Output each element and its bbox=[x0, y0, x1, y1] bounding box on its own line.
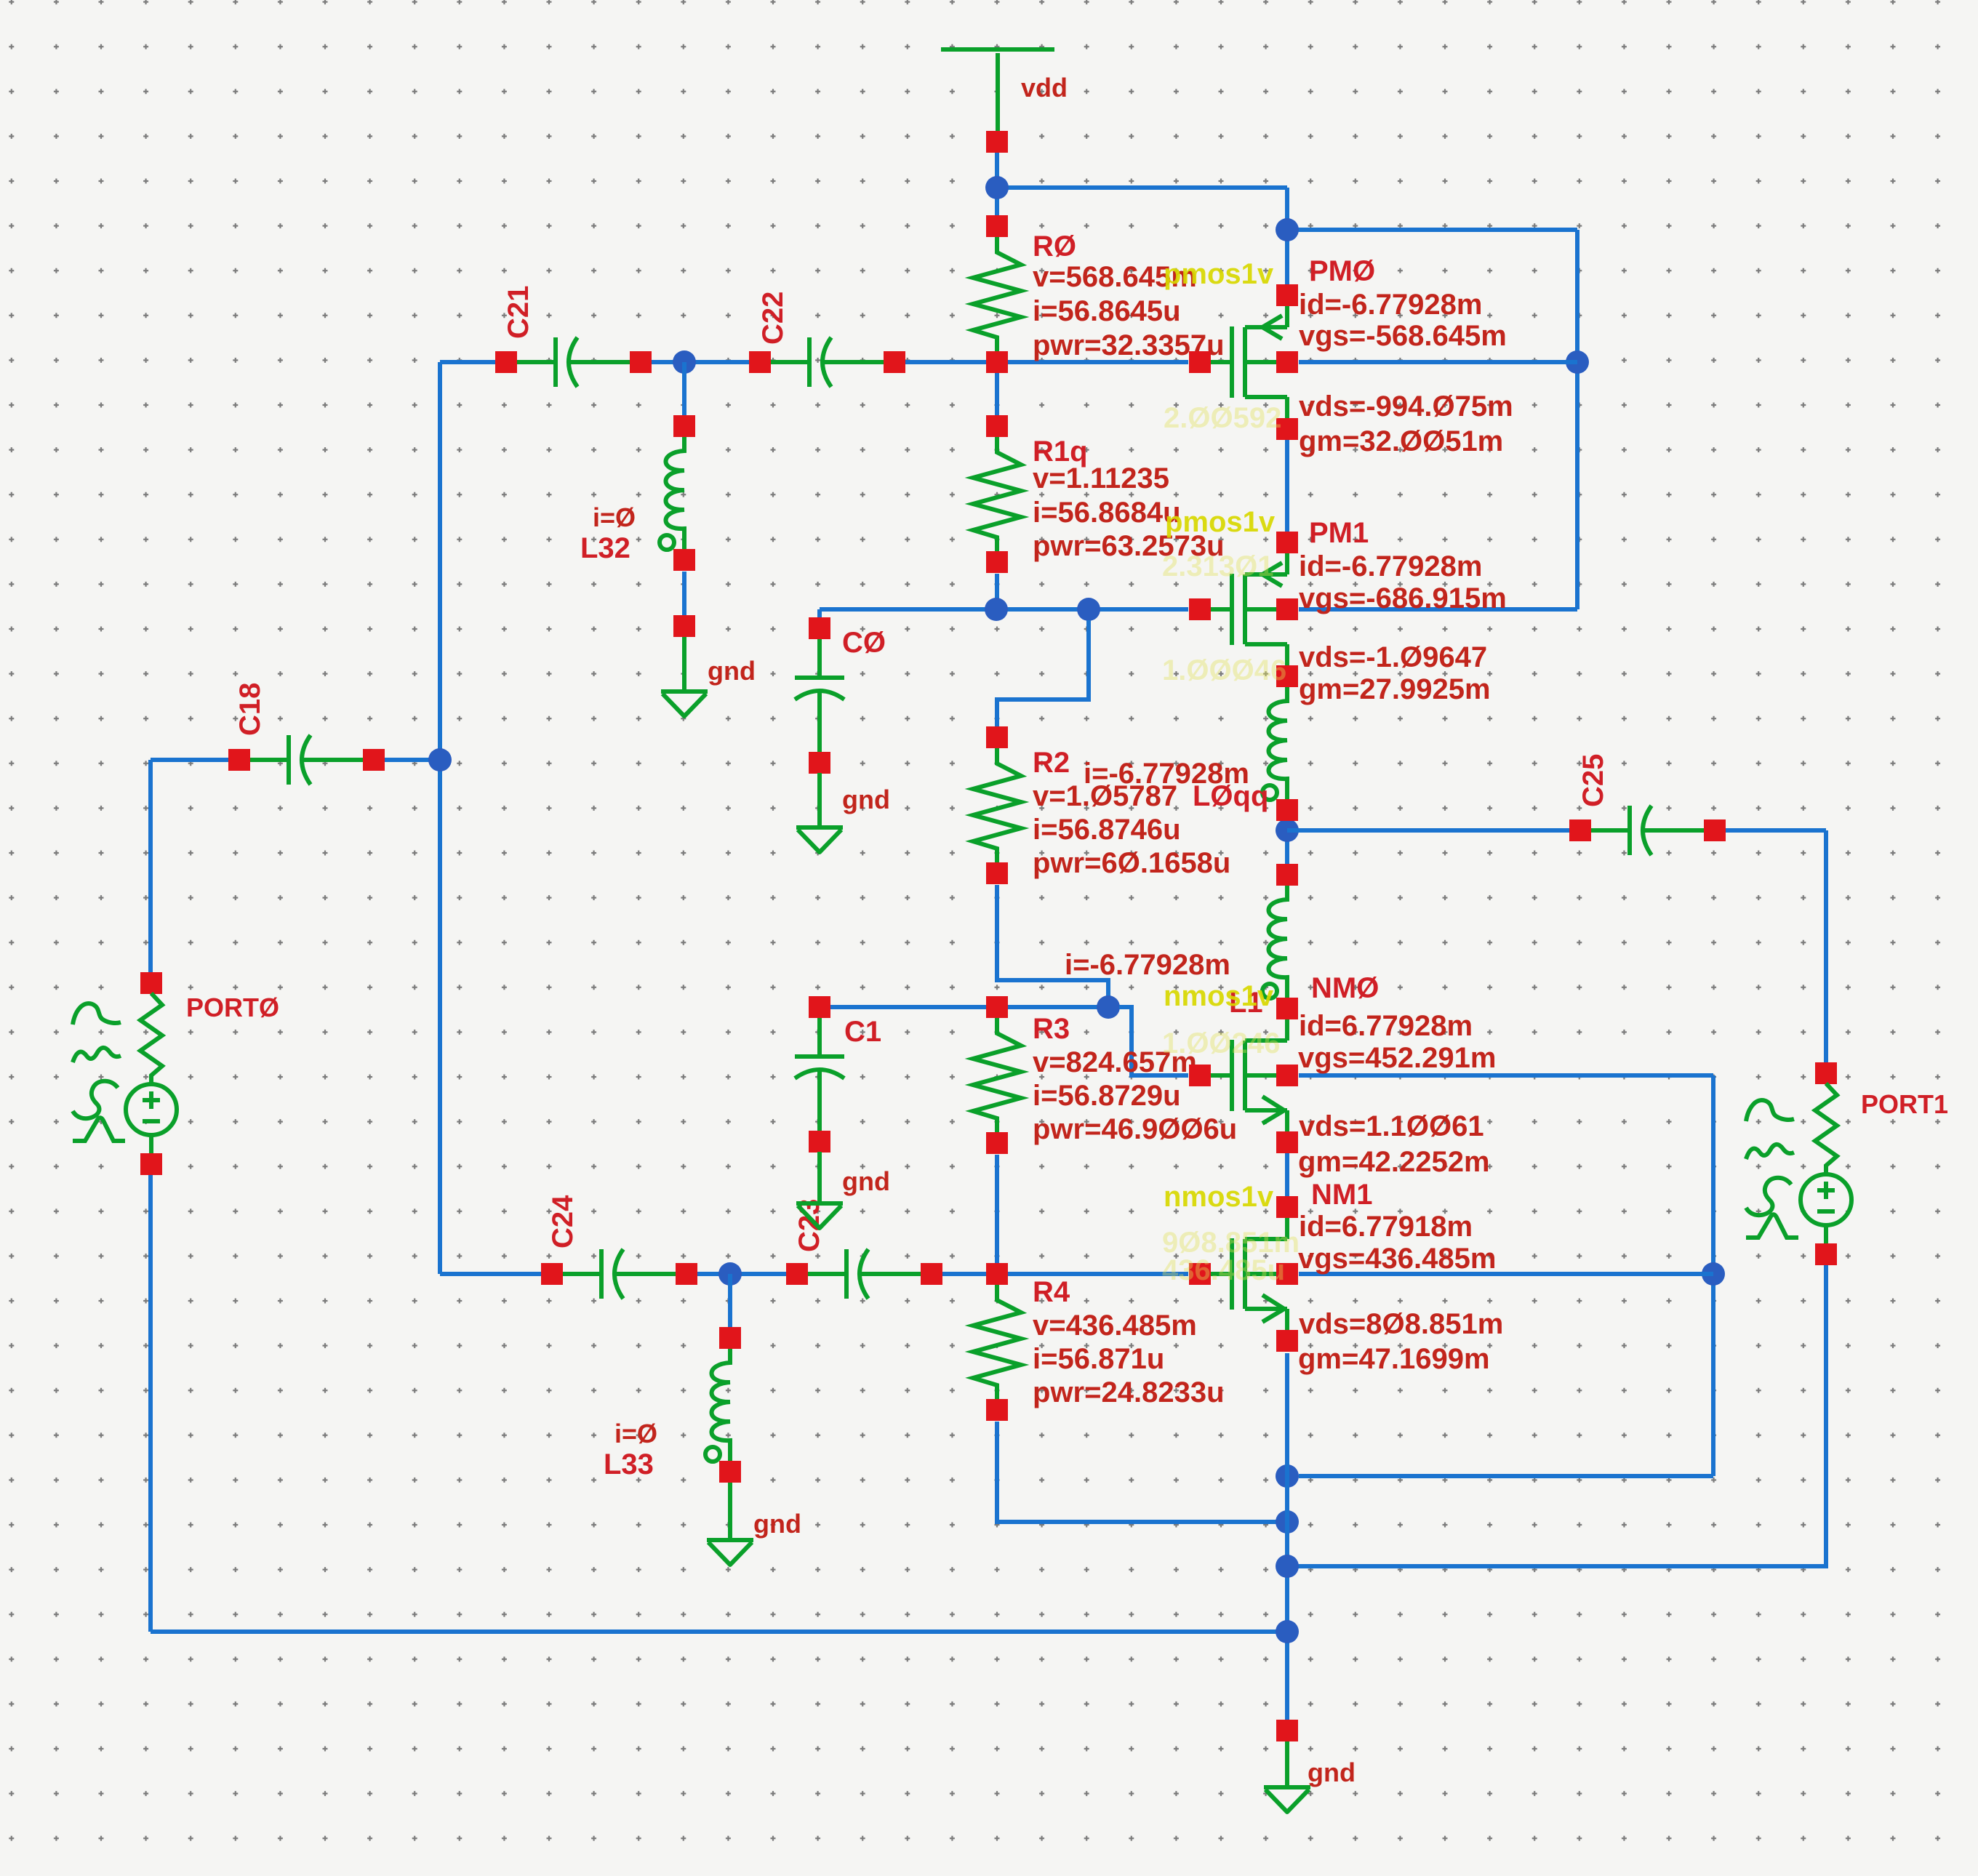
svg-text:R3: R3 bbox=[1033, 1013, 1070, 1045]
port PORT1 bbox=[1801, 1062, 1851, 1265]
resistor R4 bbox=[973, 1263, 1021, 1421]
node C21 C22 L32 junction bbox=[673, 350, 696, 374]
svg-text:gnd: gnd bbox=[708, 656, 756, 686]
svg-text:pwr=46.9ØØ6u: pwr=46.9ØØ6u bbox=[1033, 1113, 1237, 1145]
wire PM1 gate row bbox=[820, 607, 1188, 612]
svg-text:PM1: PM1 bbox=[1309, 517, 1369, 549]
svg-text:i=Ø: i=Ø bbox=[593, 502, 636, 532]
svg-text:i=56.8746u: i=56.8746u bbox=[1033, 814, 1181, 846]
capacitor C23 bbox=[786, 1249, 942, 1299]
wire C21 to C22 bbox=[652, 360, 749, 364]
wire L32 bottom to gnd pin bbox=[682, 572, 686, 615]
svg-text:vds=-994.Ø75m: vds=-994.Ø75m bbox=[1299, 390, 1513, 422]
svg-text:gm=32.ØØ51m: gm=32.ØØ51m bbox=[1299, 425, 1503, 457]
svg-text:LØqq: LØqq bbox=[1193, 780, 1268, 812]
svg-text:i=Ø: i=Ø bbox=[614, 1419, 657, 1448]
wire PM0 source to right feedback loop top bbox=[1287, 228, 1577, 232]
wire R3 top to junction bbox=[1008, 1005, 1097, 1009]
port PORT0 bbox=[126, 972, 177, 1175]
svg-text:i=56.871u: i=56.871u bbox=[1033, 1343, 1164, 1375]
wire vdd pin to R0 bbox=[995, 153, 999, 215]
svg-text:pmos1v: pmos1v bbox=[1165, 506, 1276, 538]
svg-text:vgs=452.291m: vgs=452.291m bbox=[1298, 1042, 1496, 1074]
svg-text:2.ØØ592: 2.ØØ592 bbox=[1164, 402, 1281, 434]
svg-text:vgs=-686.915m: vgs=-686.915m bbox=[1299, 582, 1507, 614]
node vdd junction bbox=[985, 176, 1009, 199]
wire PM0 drain to PM1 source bbox=[1285, 440, 1289, 532]
wire PM1 gate row jog down to R2 bbox=[997, 620, 1089, 726]
svg-text:gnd: gnd bbox=[842, 1166, 890, 1196]
wire right column NM0 gate net bbox=[1711, 1075, 1715, 1476]
svg-text:1.ØØ246: 1.ØØ246 bbox=[1162, 1027, 1280, 1059]
svg-text:i=56.8684u: i=56.8684u bbox=[1033, 497, 1181, 529]
svg-text:CØ: CØ bbox=[842, 627, 886, 659]
svg-text:gm=42.2252m: gm=42.2252m bbox=[1298, 1146, 1490, 1178]
wire C24 junction C23 bbox=[697, 1272, 786, 1276]
svg-text:i=56.8729u: i=56.8729u bbox=[1033, 1080, 1181, 1112]
svg-text:nmos1v: nmos1v bbox=[1164, 980, 1274, 1012]
svg-text:L33: L33 bbox=[604, 1448, 654, 1480]
wire NM0 bulk to right column bbox=[1299, 1073, 1713, 1078]
wire R3 bottom to R4 top bbox=[995, 1155, 999, 1263]
svg-text:C22: C22 bbox=[757, 292, 789, 345]
wire C18 corner down to PORT0 bbox=[148, 760, 153, 972]
node main column 2244 bbox=[1276, 1620, 1299, 1643]
ground symbol at L33 bbox=[707, 1483, 753, 1565]
wire R2 bottom jog to R3 row junction bbox=[997, 885, 1108, 996]
pin square vdd bbox=[986, 131, 1008, 153]
svg-text:C25: C25 bbox=[1577, 754, 1609, 807]
node feedback column at PM0 gate row bbox=[1566, 350, 1589, 374]
transistor NM0 nmos bbox=[1189, 998, 1298, 1153]
svg-text:gm=27.9925m: gm=27.9925m bbox=[1299, 673, 1491, 705]
node R3 row junction bbox=[1097, 995, 1120, 1019]
wire main column NM1 source to gnd bbox=[1285, 1353, 1289, 1720]
wire C23 to R4 bbox=[942, 1272, 986, 1276]
node right column at NM1 gate row bbox=[1702, 1262, 1725, 1286]
svg-text:gnd: gnd bbox=[1308, 1757, 1356, 1787]
wire jog junction to NM0 gate bbox=[1119, 1007, 1188, 1075]
node main column 2030 bbox=[1276, 1464, 1299, 1488]
wire right column bottom to main column bbox=[1299, 1474, 1713, 1478]
wire C0 stub bbox=[817, 609, 822, 617]
svg-text:pmos1v: pmos1v bbox=[1164, 258, 1274, 290]
svg-text:NM1: NM1 bbox=[1311, 1179, 1372, 1211]
wire R0 bottom to PM0 gate bbox=[1008, 360, 1188, 364]
capacitor C24 bbox=[541, 1249, 697, 1299]
svg-text:C24: C24 bbox=[547, 1195, 579, 1248]
svg-text:R2: R2 bbox=[1033, 747, 1070, 779]
svg-text:R4: R4 bbox=[1033, 1276, 1070, 1308]
wire C18 left lead bbox=[151, 758, 228, 762]
wire L32 top lead bbox=[682, 362, 686, 415]
svg-text:vgs=-568.645m: vgs=-568.645m bbox=[1299, 320, 1507, 352]
port PORT1 source squiggle bbox=[1746, 1100, 1798, 1238]
wire R4 to NM1 gate bbox=[1008, 1272, 1188, 1276]
ground symbol main bbox=[1264, 1720, 1310, 1812]
wire left column C21 to C24 bbox=[438, 362, 442, 1274]
svg-text:nmos1v: nmos1v bbox=[1164, 1181, 1274, 1213]
svg-text:vgs=436.485m: vgs=436.485m bbox=[1298, 1243, 1496, 1275]
inductor L1 bbox=[1262, 864, 1298, 1019]
svg-text:gnd: gnd bbox=[842, 785, 890, 814]
ground symbol at C0 bbox=[796, 773, 843, 852]
capacitor C21 bbox=[495, 337, 652, 387]
resistor R0 bbox=[973, 215, 1021, 373]
wire C18 to left column bbox=[385, 758, 440, 762]
node R2 junction on PM1 gate row bbox=[1077, 598, 1100, 621]
wire C25 left lead bbox=[1287, 828, 1569, 833]
svg-text:v=1.11235: v=1.11235 bbox=[1033, 462, 1169, 494]
transistor NM1 nmos bbox=[1189, 1196, 1298, 1352]
wire NM1 bulk to right column bbox=[1299, 1272, 1713, 1276]
wire C22 to R0 bottom bbox=[905, 360, 986, 364]
svg-text:i=-6.77928m: i=-6.77928m bbox=[1065, 949, 1230, 981]
resistor R3 bbox=[973, 996, 1021, 1154]
node C25 junction bbox=[1276, 819, 1299, 842]
wire L33 top lead bbox=[728, 1274, 732, 1327]
svg-text:C18: C18 bbox=[234, 683, 266, 736]
wire R1q bottom to PM1 gate row bbox=[995, 574, 999, 609]
ground symbol at L32 bbox=[661, 615, 708, 716]
svg-text:2.313Ø1: 2.313Ø1 bbox=[1162, 550, 1273, 582]
wire R4 bottom jog to main column bbox=[997, 1422, 1276, 1522]
svg-text:PORT1: PORT1 bbox=[1861, 1089, 1948, 1119]
wire right feedback column bbox=[1575, 230, 1579, 609]
svg-text:id=6.77918m: id=6.77918m bbox=[1299, 1211, 1473, 1243]
capacitor C18 bbox=[228, 735, 385, 785]
svg-text:vdd: vdd bbox=[1021, 73, 1068, 103]
wire PM0 bulk to feedback column bbox=[1299, 360, 1577, 364]
svg-text:pwr=24.8233u: pwr=24.8233u bbox=[1033, 1376, 1225, 1408]
wire C25 to PORT1 bbox=[1726, 830, 1826, 1062]
svg-text:NMØ: NMØ bbox=[1311, 972, 1379, 1004]
svg-text:PORTØ: PORTØ bbox=[186, 993, 279, 1022]
transistor PM0 pmos bbox=[1189, 284, 1298, 440]
node main column 2093 bbox=[1276, 1510, 1299, 1534]
port PORT0 source squiggle bbox=[73, 1003, 125, 1141]
svg-text:gnd: gnd bbox=[753, 1509, 801, 1539]
node PM0 source branch bbox=[1276, 218, 1299, 241]
resistor R1q bbox=[973, 415, 1021, 573]
capacitor C1 bbox=[795, 996, 844, 1153]
svg-text:vds=8Ø8.851m: vds=8Ø8.851m bbox=[1299, 1308, 1503, 1340]
svg-text:L32: L32 bbox=[580, 532, 630, 564]
wire NM0 source to NM1 drain bbox=[1285, 1153, 1289, 1196]
wire C1 to R3 top bbox=[830, 1005, 986, 1009]
svg-text:PMØ: PMØ bbox=[1309, 255, 1375, 287]
wire R0 to R1q bbox=[995, 373, 999, 415]
wire C21 left lead bbox=[440, 360, 495, 364]
capacitor C0 bbox=[795, 617, 844, 774]
wire vdd junction to PM0 source column bbox=[997, 188, 1287, 284]
capacitor C22 bbox=[749, 337, 905, 387]
svg-text:vds=-1.Ø9647: vds=-1.Ø9647 bbox=[1299, 641, 1487, 673]
svg-text:v=436.485m: v=436.485m bbox=[1033, 1310, 1197, 1342]
power rail vdd bbox=[941, 49, 1054, 131]
svg-text:gm=47.1699m: gm=47.1699m bbox=[1298, 1343, 1490, 1375]
svg-text:C21: C21 bbox=[502, 286, 534, 339]
inductor L0qq bbox=[1262, 665, 1298, 821]
transistor PM1 pmos bbox=[1189, 532, 1298, 687]
wire PM1 bulk to feedback column bbox=[1299, 607, 1577, 612]
wire NM1 gate row left from corner bbox=[440, 1272, 541, 1276]
node R1q junction on PM1 gate row bbox=[985, 598, 1008, 621]
svg-text:1.ØØØ46: 1.ØØØ46 bbox=[1162, 654, 1286, 686]
svg-text:id=-6.77928m: id=-6.77928m bbox=[1299, 550, 1482, 582]
ground symbol at C1 bbox=[796, 1152, 843, 1228]
svg-text:id=-6.77928m: id=-6.77928m bbox=[1299, 289, 1482, 321]
capacitor C25 bbox=[1569, 806, 1726, 855]
svg-text:436.485u: 436.485u bbox=[1162, 1254, 1285, 1286]
wire PORT0 bottom return bbox=[151, 1175, 1287, 1632]
svg-text:pwr=6Ø.1658u: pwr=6Ø.1658u bbox=[1033, 847, 1230, 879]
node main column 2154 bbox=[1276, 1555, 1299, 1578]
svg-text:i=56.8645u: i=56.8645u bbox=[1033, 295, 1181, 327]
svg-text:id=6.77928m: id=6.77928m bbox=[1299, 1010, 1473, 1042]
wire PORT1 bottom return bbox=[1298, 1265, 1826, 1566]
resistor R2 bbox=[973, 726, 1021, 884]
inductor L33 bbox=[705, 1327, 741, 1483]
inductor L32 bbox=[660, 415, 695, 571]
node C24 C23 L33 junction bbox=[718, 1262, 742, 1286]
svg-text:C1: C1 bbox=[844, 1016, 881, 1048]
wire L0qq to L1 bbox=[1285, 821, 1289, 864]
svg-text:RØ: RØ bbox=[1033, 231, 1076, 262]
node C18 junction bbox=[428, 748, 452, 771]
svg-text:vds=1.1ØØ61: vds=1.1ØØ61 bbox=[1299, 1110, 1484, 1142]
